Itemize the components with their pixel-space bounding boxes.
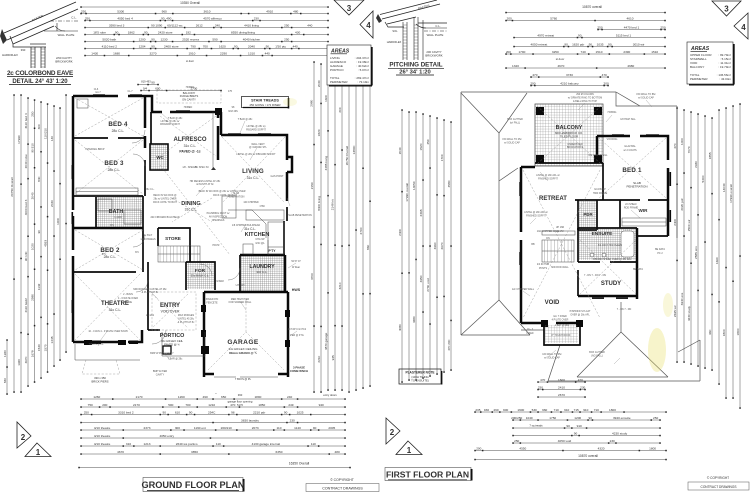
svg-text:480: 480 xyxy=(335,450,340,454)
svg-text:5170: 5170 xyxy=(237,403,243,407)
roof outline top-right xyxy=(616,92,677,238)
wardrobe fittings FF xyxy=(622,218,666,226)
svg-text:10870 overall: 10870 overall xyxy=(582,5,602,9)
svg-text:PAVED @ ¾: PAVED @ ¾ xyxy=(164,342,180,346)
svg-text:3940 ens: 3940 ens xyxy=(680,292,684,305)
svg-text:FIBGWD SHEAR OVER @ 28c AFL: FIBGWD SHEAR OVER @ 28c AFL xyxy=(593,258,632,261)
svg-text:8400 living: 8400 living xyxy=(317,196,321,211)
svg-text:250: 250 xyxy=(660,25,665,29)
svg-text:250: 250 xyxy=(284,37,289,41)
eave wall plate part xyxy=(44,30,78,32)
svg-text:3/4 100 P HOLYSAWN: 3/4 100 P HOLYSAWN xyxy=(598,244,623,247)
dimension column gf-right x321 xyxy=(320,64,322,392)
dimension row ff-top r9 xyxy=(531,76,608,78)
svg-text:90: 90 xyxy=(115,30,119,34)
svg-text:9/18 49S: 9/18 49S xyxy=(228,110,238,113)
svg-text:2040: 2040 xyxy=(317,80,321,87)
svg-text:6350: 6350 xyxy=(276,450,283,454)
svg-text:4/10 theatre: 4/10 theatre xyxy=(94,434,111,438)
svg-text:VOID OVER: VOID OVER xyxy=(161,310,180,314)
svg-text:2170: 2170 xyxy=(136,395,143,399)
svg-text:10870 overall: 10870 overall xyxy=(578,454,598,458)
ensuite basins xyxy=(590,253,594,257)
dimension column gf-right x342 xyxy=(341,70,343,390)
svg-text:ON CAVITY: ON CAVITY xyxy=(182,97,196,101)
svg-text:200: 200 xyxy=(507,16,512,20)
svg-text:4950: 4950 xyxy=(419,275,423,282)
alfresco corner post xyxy=(215,108,222,115)
dimension row gf-bot r3b xyxy=(81,422,345,424)
svg-text:& PLINTH AT 8c: & PLINTH AT 8c xyxy=(196,183,214,186)
svg-text:3830 laundry: 3830 laundry xyxy=(241,418,259,422)
svg-text:: 43.04m: : 43.04m xyxy=(719,77,731,81)
svg-text:WALL PLATE: WALL PLATE xyxy=(427,33,444,37)
dimension column ff-left x437 xyxy=(436,118,438,374)
svg-text:250: 250 xyxy=(30,111,34,116)
svg-text:5300: 5300 xyxy=(117,9,124,13)
svg-text:2148 kit: 2148 kit xyxy=(331,199,335,210)
entry west wall xyxy=(147,262,149,330)
svg-text:4 P/LITE OVER: 4 P/LITE OVER xyxy=(552,318,569,321)
svg-text:PENETRATION: PENETRATION xyxy=(228,195,245,198)
svg-text:200: 200 xyxy=(476,446,481,450)
svg-text:SOL: SOL xyxy=(392,29,398,33)
svg-text:17990 overall: 17990 overall xyxy=(405,183,409,202)
marker triangle 2 (left sheet bottom) xyxy=(17,422,31,448)
svg-text:1750: 1750 xyxy=(549,416,556,420)
svg-text:2170: 2170 xyxy=(133,403,140,407)
svg-text:470: 470 xyxy=(673,143,677,148)
dimension row gf-bot r2 xyxy=(81,406,345,408)
svg-text:200: 200 xyxy=(604,81,609,85)
svg-text:249: 249 xyxy=(288,403,293,407)
dimension row ff-bot r0b xyxy=(538,389,585,391)
svg-text:1140: 1140 xyxy=(294,426,301,430)
svg-text:1890: 1890 xyxy=(254,395,261,399)
svg-text:© COPYRIGHT: © COPYRIGHT xyxy=(330,478,354,482)
roof outline left wing xyxy=(461,92,616,335)
svg-text:2: 2 xyxy=(21,433,26,442)
svg-text:7800 FRAME: 7800 FRAME xyxy=(593,192,608,195)
svg-text:3700: 3700 xyxy=(310,273,314,280)
areas box (first floor) xyxy=(687,42,733,84)
svg-text:2368: 2368 xyxy=(419,209,423,216)
theatre south wall + windows xyxy=(73,341,86,344)
svg-text:0/4: 0/4 xyxy=(143,86,148,90)
svg-text:530: 530 xyxy=(532,408,537,412)
bed3 east wall xyxy=(144,160,146,196)
svg-text:TO ENSUITE): TO ENSUITE) xyxy=(411,378,429,382)
svg-text:HARDIFLEX: HARDIFLEX xyxy=(387,40,402,44)
svg-text:31c C.L.: 31c C.L. xyxy=(244,227,256,231)
svg-text:5115 bed 1: 5115 bed 1 xyxy=(616,33,632,37)
svg-text:2420 store: 2420 store xyxy=(158,30,173,34)
svg-text:110: 110 xyxy=(311,442,316,446)
svg-text:1190 ent: 1190 ent xyxy=(194,426,206,430)
dimension row gf-top r7 xyxy=(85,48,328,50)
svg-text:2410: 2410 xyxy=(558,385,565,389)
svg-text:4: 4 xyxy=(741,23,746,32)
svg-text:250: 250 xyxy=(84,410,89,414)
svg-text:U/S U/H: U/S U/H xyxy=(236,284,245,287)
svg-text:7 BAYS @ PL: 7 BAYS @ PL xyxy=(235,377,252,381)
svg-text:(w/ FALL): (w/ FALL) xyxy=(510,121,520,124)
svg-text:3110 bed 4: 3110 bed 4 xyxy=(24,113,28,129)
svg-text:6/4948: 6/4948 xyxy=(216,280,224,283)
svg-text:600: 600 xyxy=(155,86,160,90)
svg-text:16 - 3: 16 - 3 xyxy=(527,328,534,331)
svg-text:CONTRACT DRAWINGS: CONTRACT DRAWINGS xyxy=(322,487,363,491)
svg-text:1920: 1920 xyxy=(3,350,7,357)
svg-text:1: 1 xyxy=(36,448,41,457)
svg-text:1/8 CHIPPED BULKHEAD: 1/8 CHIPPED BULKHEAD xyxy=(232,224,260,227)
balcony (tiled) xyxy=(535,104,603,166)
svg-text:1020: 1020 xyxy=(30,243,34,250)
svg-text:WALL PLATE: WALL PLATE xyxy=(58,33,75,37)
svg-text:HOBEN: HOBEN xyxy=(184,106,193,109)
svg-text:2/4 90 TMB: 2/4 90 TMB xyxy=(537,263,550,266)
svg-text:4580: 4580 xyxy=(447,180,451,187)
svg-text:1430: 1430 xyxy=(91,51,98,55)
void south wall xyxy=(521,322,544,325)
svg-text:2210: 2210 xyxy=(317,355,321,362)
svg-text:OVER @ 28c AFL: OVER @ 28c AFL xyxy=(570,313,590,316)
svg-text:300: 300 xyxy=(175,426,180,430)
svg-text:31c C.L.: 31c C.L. xyxy=(184,144,197,148)
svg-text:NO GRIP 20 SILL: NO GRIP 20 SILL xyxy=(589,154,609,157)
dimension row ff-bot r5 xyxy=(513,435,660,437)
marker diamond 4 (right sheet) xyxy=(734,13,748,39)
svg-text:@ 172: @ 172 xyxy=(556,230,564,233)
svg-text:200/250: 200/250 xyxy=(511,416,522,420)
svg-text:90: 90 xyxy=(37,230,41,234)
svg-text:90: 90 xyxy=(151,44,155,48)
svg-text:GROUND FLOOR PLAN: GROUND FLOOR PLAN xyxy=(141,480,244,490)
svg-text:200: 200 xyxy=(506,50,511,54)
hall CL arrow xyxy=(211,167,216,170)
svg-text:1 BAY @ 86c: 1 BAY @ 86c xyxy=(555,324,570,327)
svg-text:8550 dining/living: 8550 dining/living xyxy=(231,30,255,34)
fireplace bump xyxy=(287,157,292,172)
dimension row ff-top r4 xyxy=(514,37,665,39)
svg-text:2400 store: 2400 store xyxy=(164,44,179,48)
svg-text:4 - 6 W/LTE OVER: 4 - 6 W/LTE OVER xyxy=(118,297,138,300)
faint highlighter smudges (as in scan) xyxy=(648,328,666,372)
dimension row ff-bot r0a xyxy=(538,381,585,383)
svg-text:4130 garage internal: 4130 garage internal xyxy=(252,442,281,446)
svg-text:2700: 2700 xyxy=(359,227,363,234)
dimension column ff-left x444 xyxy=(443,120,445,372)
svg-text:1320: 1320 xyxy=(512,64,519,68)
svg-text:POSTS: POSTS xyxy=(539,267,548,270)
svg-text:ROD FRAME: ROD FRAME xyxy=(624,206,639,209)
entry / portico xyxy=(148,329,160,331)
dimension column ff-left x430 xyxy=(429,116,431,376)
svg-text:BE DATA: BE DATA xyxy=(655,248,665,251)
dimension column gf-right x335 xyxy=(334,68,336,390)
svg-text:1260: 1260 xyxy=(178,395,185,399)
svg-text:710: 710 xyxy=(594,408,599,412)
svg-text:390: 390 xyxy=(21,48,26,52)
svg-text:2 - BAVN: 2 - BAVN xyxy=(123,293,133,296)
svg-text:PACK UNTIL TO BUIT: PACK UNTIL TO BUIT xyxy=(153,201,177,204)
svg-text:90: 90 xyxy=(151,37,155,41)
dimension row gf-top r5 xyxy=(85,34,328,36)
svg-text:PITCHING DETAIL: PITCHING DETAIL xyxy=(389,62,442,69)
svg-text:25c BULK C.L.: 25c BULK C.L. xyxy=(191,274,210,278)
svg-text:1040: 1040 xyxy=(526,416,533,420)
svg-text:10350 Overall: 10350 Overall xyxy=(180,1,200,5)
svg-text:1600: 1600 xyxy=(517,408,524,412)
dimension column ff-right x684 xyxy=(683,110,685,362)
svg-text:4410 living: 4410 living xyxy=(244,23,259,27)
dimension row gf-bot r4 xyxy=(81,429,345,431)
svg-text:CHG NP: CHG NP xyxy=(255,238,265,241)
svg-text:UP 16R: UP 16R xyxy=(556,226,565,229)
svg-text:230: 230 xyxy=(538,385,543,389)
dimension row ff-top overall xyxy=(506,12,665,14)
svg-text:1910: 1910 xyxy=(188,51,195,55)
svg-text:© COPYRIGHT: © COPYRIGHT xyxy=(707,476,729,480)
svg-text:4870 garage: 4870 garage xyxy=(324,332,328,350)
svg-text:1510: 1510 xyxy=(596,50,603,54)
dimension column gf-right x328 xyxy=(327,66,329,390)
svg-text:4230 study: 4230 study xyxy=(687,306,691,322)
title FIRST FLOOR PLAN xyxy=(385,468,471,481)
svg-text:7 sq treads: 7 sq treads xyxy=(529,424,543,428)
dimension column ff-right x712 xyxy=(711,118,713,370)
svg-text:90 140: 90 140 xyxy=(24,251,28,261)
svg-text:440: 440 xyxy=(307,23,312,27)
laundry room xyxy=(240,254,285,257)
svg-text:1448: 1448 xyxy=(50,336,54,343)
leader lines GF xyxy=(160,112,170,121)
svg-text:90: 90 xyxy=(162,410,166,414)
svg-text:90 510: 90 510 xyxy=(30,143,34,153)
svg-text:230: 230 xyxy=(610,439,615,443)
svg-text:4210 balcony: 4210 balcony xyxy=(560,81,579,85)
svg-text:N/SIDE: N/SIDE xyxy=(124,301,132,304)
leader lines FF xyxy=(540,172,548,181)
svg-text:440: 440 xyxy=(293,44,298,48)
svg-text:1540: 1540 xyxy=(37,344,41,351)
svg-text:1510: 1510 xyxy=(651,50,658,54)
svg-text:250: 250 xyxy=(514,439,519,443)
study walls xyxy=(578,228,637,299)
dimension column ff-right x726 xyxy=(725,108,727,398)
svg-text:VOORNG: VOORNG xyxy=(607,138,618,141)
svg-text:1620 pdr: 1620 pdr xyxy=(572,42,584,46)
dimension column gf-right x363 xyxy=(362,74,364,388)
svg-text:INTERNAL BRKP: INTERNAL BRKP xyxy=(86,148,105,151)
svg-text:1230: 1230 xyxy=(161,37,168,41)
svg-text:2150: 2150 xyxy=(310,182,314,189)
dimension row gf-top overall xyxy=(81,6,328,8)
svg-text:2695 wir: 2695 wir xyxy=(673,305,677,317)
hall wall xyxy=(144,96,147,128)
dimension column ff-right x705 xyxy=(704,116,706,368)
svg-text:1/8 - SPEC 50: 1/8 - SPEC 50 xyxy=(182,166,198,169)
svg-text:90: 90 xyxy=(284,410,288,414)
svg-text:860: 860 xyxy=(366,245,370,250)
pdr room xyxy=(578,200,597,230)
svg-text:1210: 1210 xyxy=(208,403,215,407)
svg-text:1213: 1213 xyxy=(144,442,151,446)
dimension column ff-right x740 xyxy=(739,104,741,408)
stairs hatch xyxy=(158,246,200,262)
svg-text:STORE: STORE xyxy=(165,236,181,241)
svg-text:230: 230 xyxy=(290,418,295,422)
svg-text:1600: 1600 xyxy=(324,95,328,102)
svg-text:W Rear: W Rear xyxy=(292,266,300,269)
svg-text:DINING: DINING xyxy=(181,201,201,207)
svg-text:STUDY: STUDY xyxy=(601,281,621,287)
svg-text:480: 480 xyxy=(293,9,298,13)
svg-text:DN: DN xyxy=(546,237,550,240)
svg-text:GAS POINT: GAS POINT xyxy=(270,175,284,178)
svg-text:1200: 1200 xyxy=(574,416,581,420)
svg-text:BRICKWORK: BRICKWORK xyxy=(55,60,72,64)
svg-text:200/210: 200/210 xyxy=(221,426,232,430)
dimension row ff-top r6 xyxy=(506,53,665,55)
svg-text:2c COLORBOND EAVE: 2c COLORBOND EAVE xyxy=(7,70,74,77)
svg-text:3: 3 xyxy=(724,5,729,14)
svg-text:C.L.: C.L. xyxy=(435,24,440,28)
svg-text:100 CHIPPED: 100 CHIPPED xyxy=(243,201,259,204)
svg-text:4110 bed 2: 4110 bed 2 xyxy=(102,44,118,48)
door swing arcs GF xyxy=(132,130,145,143)
svg-text:80mm GRANO @ ¾: 80mm GRANO @ ¾ xyxy=(229,351,257,355)
dimension column gf-left x28 xyxy=(27,98,29,386)
marker diamond 4 (left sheet) xyxy=(360,11,373,38)
stair treads note box xyxy=(242,97,289,108)
svg-text:3210: 3210 xyxy=(338,282,342,289)
bed4/bed3 divider xyxy=(73,137,108,139)
svg-text:14050: 14050 xyxy=(412,181,416,190)
svg-text:4320: 4320 xyxy=(598,446,605,450)
svg-text:90: 90 xyxy=(144,30,148,34)
svg-text:20750 Overall: 20750 Overall xyxy=(10,177,14,197)
marker triangle 1 (left sheet bottom) xyxy=(25,443,51,457)
svg-text:7070: 7070 xyxy=(687,146,691,153)
dimension column gf-right x349 xyxy=(348,66,350,392)
svg-text:BRICKWORK: BRICKWORK xyxy=(425,54,442,58)
svg-text:2730 void: 2730 void xyxy=(426,278,430,292)
pitching detail drawing xyxy=(376,0,447,60)
svg-text:4000 bed 3: 4000 bed 3 xyxy=(24,199,28,215)
kitchen counters xyxy=(228,210,266,238)
svg-text:18'5 robe: 18'5 robe xyxy=(93,30,106,34)
svg-text:LIVING: LIVING xyxy=(242,168,264,175)
dimension row ff-bot r3 xyxy=(513,419,660,421)
store room xyxy=(158,228,190,246)
dimension row ff-bot overall xyxy=(475,459,666,461)
svg-text:90: 90 xyxy=(574,431,578,435)
dimension column ff-right x691 xyxy=(690,112,692,364)
svg-text:BMP W PIER CAVITY: BMP W PIER CAVITY xyxy=(150,352,174,355)
svg-text:31c C.L.: 31c C.L. xyxy=(185,208,198,212)
svg-text:entry doors: entry doors xyxy=(323,393,337,397)
dimension column ff-left x409 xyxy=(408,112,410,380)
svg-text:PAVED @ -1c: PAVED @ -1c xyxy=(179,150,200,154)
svg-text:470: 470 xyxy=(540,378,545,382)
dimension column ff-right x733 xyxy=(732,106,734,398)
dimension column gf-right x356 xyxy=(355,70,357,390)
dimension column gf-left x7 xyxy=(6,340,8,394)
svg-text:960: 960 xyxy=(542,408,547,412)
pitching gutter xyxy=(376,14,382,23)
dimension row gf-top r8 xyxy=(85,55,328,57)
svg-text:4550: 4550 xyxy=(519,446,526,450)
svg-text:3270: 3270 xyxy=(150,51,157,55)
svg-text:710: 710 xyxy=(554,408,559,412)
svg-text:960: 960 xyxy=(162,9,167,13)
bath/bed2 divider xyxy=(73,227,143,230)
svg-text:T BAR @ 28c: T BAR @ 28c xyxy=(168,358,183,361)
svg-text:1862: 1862 xyxy=(128,30,135,34)
FF outer walls xyxy=(521,166,535,169)
svg-text:w/ SOLID CAP: w/ SOLID CAP xyxy=(544,356,560,359)
svg-text:14030: 14030 xyxy=(722,183,726,192)
svg-text:CAVITY: CAVITY xyxy=(156,373,165,376)
svg-text:2520 recess: 2520 recess xyxy=(182,37,199,41)
stairs shelf xyxy=(542,231,575,235)
svg-text:2040: 2040 xyxy=(398,147,402,154)
svg-text:w/ SOLID CAP: w/ SOLID CAP xyxy=(638,96,654,99)
svg-text:490: 490 xyxy=(166,16,171,20)
svg-text:BE DATA: BE DATA xyxy=(633,268,643,271)
svg-text:740: 740 xyxy=(581,50,586,54)
svg-text:360: 360 xyxy=(238,393,243,397)
svg-text:1800: 1800 xyxy=(736,328,740,335)
foyer walls xyxy=(186,246,215,290)
dimension column gf-left x21 xyxy=(20,95,22,392)
dimension column gf-left x60 xyxy=(59,108,61,360)
svg-text:HARDIFLEX: HARDIFLEX xyxy=(2,53,18,57)
dimension row ff-top r5 xyxy=(514,46,665,48)
svg-text:2040: 2040 xyxy=(30,192,34,199)
svg-text:1855: 1855 xyxy=(708,152,712,159)
svg-text:OPENINGS: OPENINGS xyxy=(212,219,225,222)
svg-text:1700: 1700 xyxy=(440,154,444,161)
svg-text:140: 140 xyxy=(50,136,54,141)
dimension row ff-top r2 xyxy=(506,20,665,22)
svg-text:FENCETE: FENCETE xyxy=(206,301,218,304)
svg-text:235: 235 xyxy=(475,408,480,412)
svg-text:PORTICO: PORTICO xyxy=(330,68,344,72)
svg-text:16350 Overall: 16350 Overall xyxy=(289,462,310,466)
dimension row gf-bot overall xyxy=(79,467,350,469)
svg-text:230: 230 xyxy=(254,16,259,20)
svg-text:2400: 2400 xyxy=(673,219,677,226)
robe / vanity fittings GF xyxy=(76,188,138,195)
svg-text:CONTRACT DRAWINGS: CONTRACT DRAWINGS xyxy=(701,485,737,489)
svg-text:1800: 1800 xyxy=(649,446,656,450)
svg-text:HOBNG: HOBNG xyxy=(608,111,617,114)
svg-text:1200: 1200 xyxy=(139,37,146,41)
svg-text:FIRST FLOOR PLAN: FIRST FLOOR PLAN xyxy=(386,470,469,480)
svg-text:: 19.79m²: : 19.79m² xyxy=(718,65,731,69)
svg-text:2210 pdr: 2210 pdr xyxy=(253,410,265,414)
svg-text:960: 960 xyxy=(708,329,712,334)
svg-text:FIBOARD SOFFIT: FIBOARD SOFFIT xyxy=(160,123,180,126)
svg-text:SLAB PENETRATION: SLAB PENETRATION xyxy=(288,214,312,217)
svg-text:1: 1 xyxy=(407,446,412,455)
dimension row ff-bot r6 xyxy=(513,442,660,444)
svg-text:8° TOUCH ROOF: 8° TOUCH ROOF xyxy=(552,334,571,337)
dimension row gf-top r4 xyxy=(85,27,328,29)
garage walls xyxy=(204,291,288,294)
